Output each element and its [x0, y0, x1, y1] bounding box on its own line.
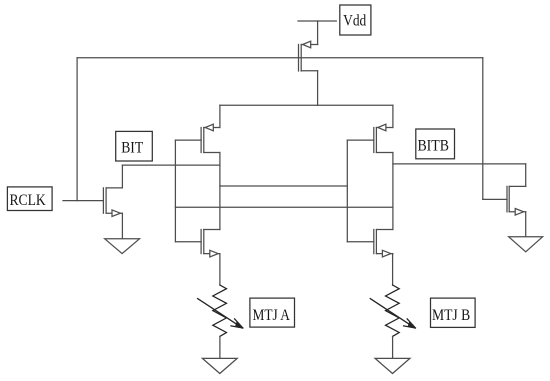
BIT box	[116, 131, 153, 161]
wire N3 gate lead	[347, 241, 374, 243]
svg-text:MTJ A: MTJ A	[252, 307, 290, 324]
BITB box	[416, 129, 455, 159]
wire right riser	[482, 58, 484, 200]
wire RCLK lead	[63, 200, 103, 202]
svg-text:BITB: BITB	[417, 137, 449, 154]
MTJ B box	[431, 298, 476, 327]
ground G2	[202, 358, 237, 373]
pmos M1	[299, 41, 318, 71]
wire BITB to N4 drain	[525, 164, 527, 187]
wire N1 source to ground	[121, 213, 123, 239]
wire Vdd to M1 source	[317, 21, 319, 45]
wire N4 gate lead	[483, 198, 507, 200]
wire BITB	[393, 163, 526, 165]
svg-text:Vdd: Vdd	[343, 13, 366, 30]
ground G1	[105, 239, 140, 254]
pmos P3	[374, 124, 393, 152]
nmos N3	[374, 230, 393, 257]
wire rail to P2 source	[219, 105, 221, 127]
wire rail to P3 source	[392, 105, 394, 127]
wire P3 drain rail	[392, 153, 394, 230]
resistor MTJ A	[213, 285, 227, 336]
wire top gate rail	[77, 57, 483, 59]
wire N3 source to MTJ B	[392, 254, 394, 285]
svg-text:RCLK: RCLK	[9, 192, 46, 209]
wire MTJ B to ground	[392, 336, 394, 358]
wire cross couple 2	[175, 206, 393, 208]
nmos N2	[201, 230, 220, 257]
wire Vdd stub	[298, 20, 336, 22]
wire N1 drain to BIT	[121, 165, 123, 188]
Vdd box	[340, 5, 371, 35]
wire cross couple 1	[220, 185, 347, 187]
wire P2 gate lead	[175, 139, 201, 141]
nmos N1	[103, 188, 122, 217]
wire N4 source to ground	[525, 212, 527, 237]
MTJ A box	[250, 298, 295, 327]
wire P3 gate lead	[347, 139, 374, 141]
resistor MTJ B	[386, 285, 400, 336]
wire BIT	[122, 164, 219, 166]
RCLK box	[7, 187, 52, 211]
wire N2 gate lead	[175, 241, 201, 243]
pmos P2	[201, 124, 220, 152]
wire M1 drain to latch rail	[317, 71, 319, 105]
wire RCLK riser	[76, 58, 78, 201]
ground G4	[375, 358, 410, 373]
wire left gate rail	[174, 140, 176, 242]
ground G3	[509, 237, 543, 252]
MTJ A arrow	[198, 299, 243, 328]
wire right gate rail	[346, 140, 348, 242]
MTJ B arrow	[370, 299, 415, 328]
svg-text:MTJ B: MTJ B	[432, 307, 470, 324]
wire P2 drain rail	[219, 153, 221, 230]
nmos N4	[507, 186, 526, 215]
svg-text:BIT: BIT	[121, 139, 143, 156]
wire N2 source to MTJ A	[219, 254, 221, 285]
wire latch top rail	[220, 104, 393, 106]
wire MTJ A to ground	[219, 336, 221, 358]
